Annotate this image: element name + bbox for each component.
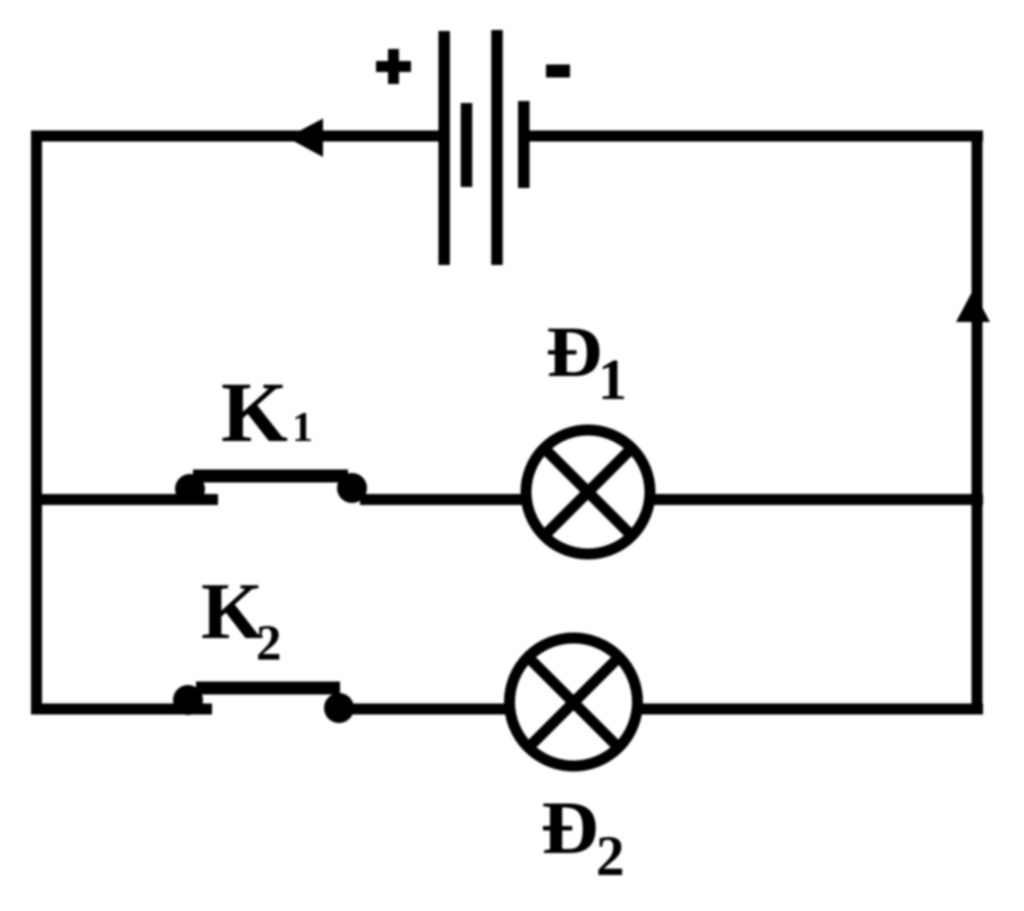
switch K2 bar [196,682,340,695]
battery B1 plate long left (+) [438,31,450,265]
lamp D2 cross [531,660,616,745]
label polarity minus [546,65,570,78]
wire left vertical [31,131,42,715]
switch K2 left contact dot [173,685,203,715]
lamp D1 cross [547,451,629,533]
svg-text:2: 2 [256,616,282,672]
lamp D1 circle [526,430,650,554]
wire middle branch left (left wire to switch K1) [31,494,218,505]
wire bottom branch right (switch K2 to right wire) [348,704,983,715]
lamp D2 circle [510,638,638,766]
arrow current direction on right wire (pointing up) [956,290,990,322]
arrow current direction on top wire (pointing left) [287,119,323,158]
svg-text:1: 1 [598,347,627,412]
svg-text:Đ: Đ [546,313,602,393]
battery B1 plate short left [461,103,473,187]
wire top-right segment (battery - terminal to right corner) [524,131,983,142]
svg-text:K: K [221,364,288,460]
switch K1 left contact dot [175,474,205,504]
svg-text:K: K [201,568,263,656]
wire bottom branch left (left wire to switch K2) [31,704,212,715]
wire top-left segment (battery + terminal to left corner) [31,131,444,142]
svg-text:Đ: Đ [541,786,599,869]
label polarity plus [376,49,411,84]
switch K1 bar [193,470,348,483]
wire middle branch right (switch K1 to right wire) [360,494,983,505]
battery B1 plate long right [491,30,503,265]
wire right vertical [972,131,983,715]
svg-text:1: 1 [292,405,313,451]
battery B1 plate short right (-) [518,101,530,188]
svg-text:2: 2 [596,825,625,888]
switch K2 right contact dot [324,693,354,723]
switch K1 right contact dot [337,473,367,503]
